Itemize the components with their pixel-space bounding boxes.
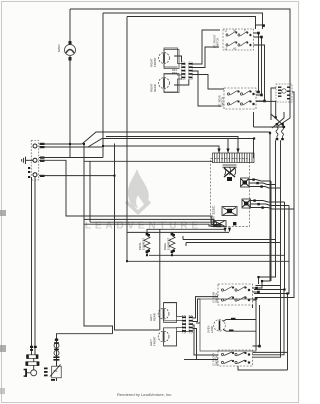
- svg-text:OL: OL: [54, 369, 58, 373]
- svg-text:ELEMENT: ELEMENT: [166, 237, 170, 250]
- wire top L2: [103, 13, 263, 29]
- connector block left units: [182, 316, 193, 334]
- bottom right corner wires: [238, 286, 288, 371]
- bake element: [169, 236, 175, 251]
- wire to left door chain: [57, 334, 113, 366]
- wire V x84 to bottom: [84, 144, 113, 334]
- svg-text:LAMP: LAMP: [210, 326, 214, 333]
- left front switch box: [218, 350, 253, 366]
- left front surface unit: [158, 328, 189, 347]
- watermark flame logo: [125, 169, 151, 215]
- right rear surface unit RR: [159, 74, 182, 92]
- stub arrowheads: [217, 149, 239, 154]
- svg-text:ELEMENT: ELEMENT: [141, 237, 145, 250]
- wire clock stub B: [227, 139, 229, 154]
- wire clock stub A: [103, 146, 219, 153]
- wire T2b to clock left: [39, 160, 222, 224]
- lamp coil symbols: [276, 125, 284, 138]
- svg-text:REAR: REAR: [153, 84, 157, 92]
- element wires: [127, 229, 289, 330]
- svg-text:REAR: REAR: [153, 313, 157, 321]
- wire left main vertical lower: [69, 56, 71, 157]
- wire top L1: [70, 9, 290, 112]
- fuse F1: [65, 45, 76, 56]
- right bus verticals: [253, 112, 295, 298]
- wires connector to bottom switches: [184, 297, 218, 360]
- ground symbol: [22, 157, 33, 164]
- wire diag to relay feed: [88, 139, 254, 159]
- left rear surface unit: [158, 302, 182, 322]
- terminal L2: [33, 173, 37, 177]
- svg-text:FRONT: FRONT: [153, 336, 157, 346]
- terminal L1: [33, 144, 37, 148]
- relay 2: [242, 199, 251, 208]
- wire top L3: [127, 17, 256, 30]
- svg-text:SWITCH: SWITCH: [215, 356, 219, 366]
- wires oven light box: [256, 88, 294, 120]
- bake relay component: [222, 207, 237, 216]
- svg-text:SWITCH: SWITCH: [216, 38, 220, 48]
- chain connecting wires: [32, 353, 57, 381]
- relay fan-out wires to bus: [249, 180, 294, 210]
- oven control dashed box: [211, 149, 254, 233]
- wire L1 to bus: [39, 132, 270, 281]
- terminal N: [33, 158, 37, 162]
- wires from terminal block to down chains: [32, 177, 36, 353]
- terminal block TB (left): [28, 141, 45, 181]
- svg-text:L1: L1: [225, 31, 228, 33]
- terminal strip: [213, 153, 255, 163]
- svg-text:MAIN: MAIN: [57, 45, 61, 53]
- svg-text:Rendered by LeadVenture, Inc.: Rendered by LeadVenture, Inc.: [117, 392, 172, 397]
- scan smudge left edge: [0, 210, 6, 216]
- wire V x127 long: [126, 17, 128, 262]
- terminal lugs: [28, 143, 45, 178]
- wire V x114: [115, 144, 160, 331]
- switch box RF (right front infinite switch): [223, 29, 254, 50]
- wire strip left: [84, 160, 213, 162]
- oven light / door chain (far left): [30, 346, 37, 351]
- burner frame rects: [164, 50, 179, 346]
- wire T3 down right: [39, 175, 115, 177]
- door switch chain (lower middle-left): [50, 343, 61, 378]
- left rear switch box: [218, 284, 253, 305]
- svg-text:FRONT: FRONT: [153, 57, 157, 67]
- wire left main vertical upper: [69, 9, 71, 45]
- wires between switch boxes right side: [254, 25, 265, 101]
- crossover X wires: [254, 112, 291, 128]
- wire T2a: [39, 157, 103, 159]
- wire clock left lower horizontals: [84, 219, 222, 225]
- svg-text:SWITCH: SWITCH: [221, 97, 225, 107]
- transformer: [223, 165, 237, 175]
- wires connector to switches: [174, 30, 224, 106]
- middle band wires: [39, 132, 270, 366]
- bottom component: [214, 221, 227, 227]
- broil element: [144, 236, 150, 251]
- wire V x103: [102, 13, 104, 146]
- wire down to left rear unit: [159, 229, 161, 330]
- svg-text:RF3: RF3: [172, 71, 177, 75]
- svg-text:H2: H2: [234, 48, 237, 50]
- oven box with lamp: [200, 299, 256, 351]
- right front surface unit RF: [159, 48, 182, 67]
- oven light switch dashed box (right): [276, 84, 292, 102]
- connector block right units: [181, 62, 192, 80]
- relay 1: [241, 178, 250, 187]
- wire clock stub C: [106, 137, 238, 154]
- wires between bottom switch boxes: [253, 288, 263, 350]
- svg-text:SWITCH: SWITCH: [215, 293, 219, 303]
- switch box RR (right rear infinite switch): [224, 88, 256, 109]
- wire branch to clock stub B: [39, 146, 102, 148]
